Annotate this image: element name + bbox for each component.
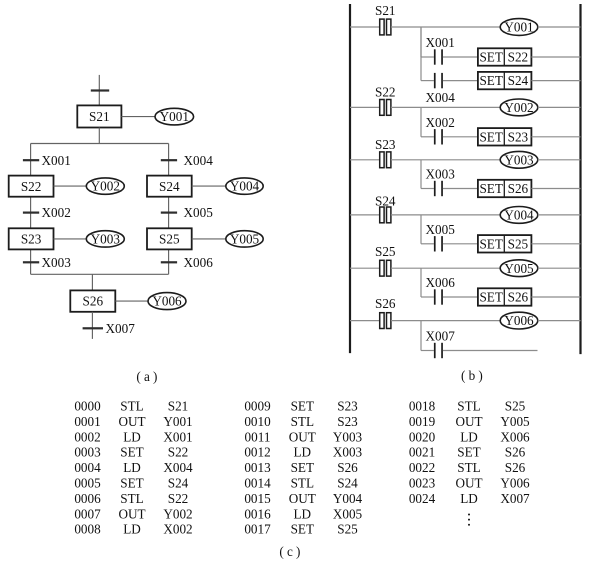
svg-text:SET: SET — [479, 181, 502, 196]
svg-text:SET: SET — [479, 129, 502, 144]
wire S25 to Y005 — [192, 238, 226, 240]
wire rail to STL S26 — [350, 320, 380, 322]
instruction row 0024 LD X007 — [409, 491, 530, 506]
svg-text:X003: X003 — [333, 445, 363, 460]
wire branch below S23 — [420, 160, 422, 189]
instruction row 0003 SET S22 — [74, 445, 188, 460]
svg-text:OUT: OUT — [455, 414, 482, 429]
wire branch to contact X001 — [421, 56, 434, 58]
svg-text:S22: S22 — [21, 179, 42, 194]
svg-text:0008: 0008 — [74, 522, 101, 537]
svg-text:LD: LD — [294, 445, 312, 460]
wire S21 to Y001 — [121, 116, 155, 118]
svg-text:0020: 0020 — [409, 429, 436, 444]
wire branch to contact X004 — [421, 80, 434, 82]
svg-text:Y001: Y001 — [504, 20, 533, 35]
wire branch to contact X003 — [421, 188, 434, 190]
svg-text:0012: 0012 — [244, 445, 270, 460]
svg-text:S24: S24 — [159, 179, 180, 194]
wire branch below S25 — [420, 268, 422, 297]
svg-text:S24: S24 — [337, 476, 358, 491]
wire SET S26 to right rail — [531, 296, 580, 298]
svg-text:OUT: OUT — [118, 414, 145, 429]
transition X001 tick — [23, 159, 39, 161]
svg-text:X007: X007 — [106, 321, 136, 336]
SET box S23 — [478, 128, 532, 145]
wire branch below S26 — [420, 321, 422, 351]
svg-text:OUT: OUT — [455, 476, 482, 491]
svg-text:S23: S23 — [337, 414, 358, 429]
svg-text:Y003: Y003 — [504, 152, 534, 167]
svg-text:0018: 0018 — [409, 399, 436, 414]
wire branch to contact X002 — [421, 136, 434, 138]
instruction row 0014 STL S24 — [244, 476, 358, 491]
svg-text:STL: STL — [291, 476, 314, 491]
wire branch to contact X005 — [421, 243, 434, 245]
STL contact S21 — [380, 19, 391, 35]
svg-text:Y006: Y006 — [504, 313, 534, 328]
state box S23 — [9, 228, 54, 249]
transition X003 tick — [23, 261, 39, 263]
instruction row 0023 OUT Y006 — [409, 476, 530, 491]
svg-text:STL: STL — [120, 491, 143, 506]
svg-text:STL: STL — [120, 399, 143, 414]
svg-text:LD: LD — [460, 429, 478, 444]
output coil Y004 — [500, 207, 538, 224]
svg-text:OUT: OUT — [118, 506, 145, 521]
contact X002 — [434, 129, 443, 144]
instruction row 0010 STL S23 — [244, 414, 358, 429]
svg-text:Y003: Y003 — [91, 232, 121, 247]
svg-text:X007: X007 — [500, 491, 530, 506]
svg-text:0017: 0017 — [244, 522, 271, 537]
wire branch below S24 — [420, 215, 422, 244]
svg-text:(a): (a) — [136, 369, 160, 384]
wire branch to contact X006 — [421, 296, 434, 298]
svg-text:S23: S23 — [375, 137, 396, 152]
svg-text:S23: S23 — [337, 399, 358, 414]
STL contact S25 — [380, 260, 391, 276]
svg-text:X002: X002 — [163, 522, 192, 537]
wire STL S23 to coil Y003 — [391, 159, 500, 161]
svg-text:SET: SET — [479, 73, 502, 88]
svg-text:SET: SET — [479, 236, 502, 251]
svg-text:0000: 0000 — [74, 399, 101, 414]
contact X006 — [434, 289, 443, 304]
wire left branch vertical — [30, 144, 32, 275]
svg-text:Y003: Y003 — [333, 429, 363, 444]
svg-text:X002: X002 — [426, 115, 455, 130]
svg-text:X001: X001 — [163, 429, 192, 444]
svg-text:S21: S21 — [375, 3, 396, 18]
svg-text:0022: 0022 — [409, 460, 435, 475]
svg-text:LD: LD — [123, 460, 141, 475]
left power rail — [349, 4, 351, 353]
output ellipse Y001 — [155, 108, 194, 125]
transition X002 tick — [23, 212, 39, 214]
output coil Y002 — [500, 99, 538, 116]
parallel branch line top — [31, 143, 169, 145]
wire S26 to Y006 — [115, 300, 148, 302]
wire branch below S22 — [420, 107, 422, 136]
transition X006 tick — [161, 261, 177, 263]
instruction row 0009 SET S23 — [244, 399, 358, 414]
wire branch below S21 — [420, 27, 422, 81]
svg-text:0013: 0013 — [244, 460, 271, 475]
svg-text:S25: S25 — [375, 244, 396, 259]
svg-text:Y005: Y005 — [500, 414, 530, 429]
wire rail to STL S25 — [350, 267, 380, 269]
instruction row 0001 OUT Y001 — [74, 414, 192, 429]
instruction row 0020 LD X006 — [409, 429, 530, 444]
svg-text:S25: S25 — [337, 522, 358, 537]
instruction row 0019 OUT Y005 — [409, 414, 530, 429]
svg-text:X001: X001 — [426, 35, 455, 50]
transition X004 tick — [161, 159, 177, 161]
output ellipse Y003 — [86, 231, 124, 247]
svg-text:0003: 0003 — [74, 445, 101, 460]
svg-text:S25: S25 — [508, 236, 529, 251]
contact X005 — [434, 236, 443, 251]
contact X007 — [434, 343, 443, 358]
svg-text:0015: 0015 — [244, 491, 271, 506]
state box S22 — [9, 176, 54, 197]
svg-text:S23: S23 — [508, 129, 529, 144]
output coil Y006 — [500, 312, 538, 329]
instruction row 0013 SET S26 — [244, 460, 358, 475]
wire rail to STL S24 — [350, 214, 380, 216]
svg-text:S22: S22 — [168, 445, 189, 460]
svg-text:X004: X004 — [426, 90, 456, 105]
wire SET S22 to right rail — [531, 56, 580, 58]
svg-text:S26: S26 — [505, 460, 526, 475]
svg-text:LD: LD — [460, 491, 478, 506]
svg-text:0002: 0002 — [74, 429, 100, 444]
wire contact X005 to SET S25 — [443, 243, 478, 245]
instruction row 0018 STL S25 — [409, 399, 526, 414]
svg-text:X003: X003 — [426, 167, 456, 182]
svg-text:0021: 0021 — [409, 445, 435, 460]
wire S22 to Y002 — [54, 185, 87, 187]
svg-text:0024: 0024 — [409, 491, 436, 506]
svg-text:LD: LD — [294, 506, 312, 521]
SET box S24 — [478, 72, 532, 89]
instruction row 0000 STL S21 — [74, 399, 188, 414]
svg-text:X005: X005 — [333, 506, 363, 521]
output coil Y005 — [500, 260, 538, 277]
wire contact X002 to SET S23 — [443, 136, 478, 138]
svg-text:Y001: Y001 — [160, 109, 189, 124]
svg-text:Y002: Y002 — [91, 179, 120, 194]
svg-text:S24: S24 — [375, 194, 396, 209]
svg-text:S24: S24 — [508, 73, 529, 88]
instruction row 0004 LD X004 — [74, 460, 193, 475]
instruction row 0006 STL S22 — [74, 491, 188, 506]
wire right branch vertical — [168, 144, 170, 275]
svg-text:S26: S26 — [337, 460, 358, 475]
wire SET S26 to right rail — [531, 188, 580, 190]
wire merge to S26 — [91, 274, 93, 290]
state box S26 — [70, 290, 115, 311]
transition X007 tick — [83, 327, 103, 329]
svg-text:SET: SET — [291, 460, 314, 475]
svg-text:S21: S21 — [168, 399, 189, 414]
svg-text:SET: SET — [120, 476, 143, 491]
svg-text:0016: 0016 — [244, 506, 271, 521]
svg-text:X004: X004 — [184, 153, 214, 168]
svg-text:(c): (c) — [279, 544, 303, 559]
state box S25 — [147, 228, 192, 249]
instruction row 0021 SET S26 — [409, 445, 526, 460]
svg-text:S24: S24 — [168, 476, 189, 491]
wire STL S24 to coil Y004 — [391, 214, 500, 216]
output ellipse Y004 — [226, 178, 263, 194]
STL contact S24 — [380, 207, 391, 223]
svg-text:SET: SET — [479, 290, 502, 305]
wire coil Y005 to right rail — [538, 267, 581, 269]
output coil Y001 — [500, 19, 538, 36]
wire SET S23 to right rail — [531, 136, 580, 138]
output ellipse Y006 — [148, 293, 186, 310]
instruction row 0017 SET S25 — [244, 522, 358, 537]
instruction row 0008 LD X002 — [74, 522, 192, 537]
wire coil Y003 to right rail — [538, 159, 581, 161]
instruction row 0011 OUT Y003 — [245, 429, 363, 444]
wire S23 to Y003 — [54, 238, 87, 240]
svg-text:S26: S26 — [508, 181, 529, 196]
STL contact S26 — [380, 313, 391, 329]
svg-text:0010: 0010 — [244, 414, 271, 429]
contact X004 — [434, 73, 443, 88]
svg-text:Y004: Y004 — [333, 491, 363, 506]
state box S21 — [77, 105, 121, 127]
svg-text:S26: S26 — [508, 290, 529, 305]
wire STL S26 to coil Y006 — [391, 320, 500, 322]
svg-text:0005: 0005 — [74, 476, 101, 491]
svg-text:X005: X005 — [184, 205, 214, 220]
svg-text:STL: STL — [457, 460, 480, 475]
svg-text:0004: 0004 — [74, 460, 101, 475]
svg-text:S25: S25 — [505, 399, 526, 414]
contact X001 — [434, 49, 443, 64]
svg-text:S26: S26 — [83, 294, 104, 309]
SET box S25 — [478, 235, 532, 252]
wire branch to contact X007 — [421, 350, 434, 352]
continuation ellipsis — [468, 514, 470, 526]
svg-text:OUT: OUT — [289, 429, 316, 444]
wire S24 to Y004 — [192, 185, 226, 187]
state box S24 — [147, 176, 192, 197]
wire STL S25 to coil Y005 — [391, 267, 500, 269]
svg-text:X007: X007 — [426, 329, 456, 344]
svg-text:S22: S22 — [508, 50, 529, 65]
svg-text:0011: 0011 — [245, 429, 271, 444]
wire SET S25 to right rail — [531, 243, 580, 245]
svg-text:X001: X001 — [42, 153, 71, 168]
wire coil Y006 to right rail — [538, 320, 581, 322]
svg-text:0019: 0019 — [409, 414, 436, 429]
svg-text:Y002: Y002 — [163, 506, 192, 521]
svg-text:LD: LD — [123, 429, 141, 444]
output coil Y003 — [500, 151, 538, 168]
svg-text:X006: X006 — [184, 255, 214, 270]
svg-text:X002: X002 — [42, 205, 71, 220]
svg-text:Y005: Y005 — [504, 261, 534, 276]
instruction row 0012 LD X003 — [244, 445, 362, 460]
svg-text:Y006: Y006 — [152, 294, 182, 309]
wire STL S22 to coil Y002 — [391, 106, 500, 108]
svg-text:OUT: OUT — [289, 491, 316, 506]
output ellipse Y002 — [86, 178, 124, 194]
svg-text:SET: SET — [120, 445, 143, 460]
svg-text:Y002: Y002 — [504, 100, 533, 115]
svg-text:LD: LD — [123, 522, 141, 537]
instruction row 0002 LD X001 — [74, 429, 192, 444]
instruction row 0015 OUT Y004 — [244, 491, 362, 506]
wire STL S21 to coil Y001 — [391, 26, 500, 28]
svg-text:S23: S23 — [21, 232, 42, 247]
svg-text:0006: 0006 — [74, 491, 101, 506]
svg-text:SET: SET — [457, 445, 480, 460]
wire rail to STL S22 — [350, 106, 380, 108]
instruction row 0005 SET S24 — [74, 476, 188, 491]
svg-text:STL: STL — [457, 399, 480, 414]
wire contact X003 to SET S26 — [443, 188, 478, 190]
svg-text:S25: S25 — [159, 232, 180, 247]
svg-text:S26: S26 — [505, 445, 526, 460]
wire branch below S21 — [420, 27, 422, 57]
instruction row 0007 OUT Y002 — [74, 506, 192, 521]
initial transition tick — [91, 89, 109, 91]
svg-text:Y004: Y004 — [504, 208, 534, 223]
wire SET S24 to right rail — [531, 80, 580, 82]
wire contact X007 continuation — [443, 350, 538, 352]
SET box S26 — [478, 288, 532, 305]
svg-text:S21: S21 — [89, 109, 110, 124]
STL contact S23 — [380, 152, 391, 168]
wire contact X006 to SET S26 — [443, 296, 478, 298]
svg-text:0009: 0009 — [244, 399, 271, 414]
svg-text:X004: X004 — [163, 460, 193, 475]
svg-text:S22: S22 — [168, 491, 189, 506]
right power rail — [579, 4, 581, 354]
wire S26 exit — [91, 312, 93, 339]
svg-text:0001: 0001 — [74, 414, 100, 429]
svg-text:SET: SET — [291, 522, 314, 537]
wire contact X004 to SET S24 — [443, 80, 478, 82]
wire entry into S21 — [98, 75, 100, 106]
svg-text:Y004: Y004 — [230, 179, 260, 194]
instruction row 0016 LD X005 — [244, 506, 362, 521]
SET box S26 — [478, 180, 532, 197]
SET box S22 — [478, 48, 532, 65]
output ellipse Y005 — [226, 231, 263, 247]
wire coil Y001 to right rail — [538, 26, 581, 28]
wire S21 to branch — [98, 128, 100, 144]
svg-text:(b): (b) — [461, 368, 486, 383]
svg-text:S22: S22 — [375, 85, 396, 100]
svg-text:STL: STL — [291, 414, 314, 429]
transition X005 tick — [161, 212, 177, 214]
svg-text:0014: 0014 — [244, 476, 271, 491]
wire rail to STL S21 — [350, 26, 380, 28]
svg-text:Y005: Y005 — [230, 232, 260, 247]
svg-text:X006: X006 — [500, 429, 530, 444]
parallel merge line bottom — [31, 273, 169, 275]
svg-text:SET: SET — [479, 50, 502, 65]
svg-text:Y001: Y001 — [163, 414, 192, 429]
wire contact X001 to SET S22 — [443, 56, 478, 58]
svg-text:SET: SET — [291, 399, 314, 414]
svg-text:0023: 0023 — [409, 476, 436, 491]
svg-text:S26: S26 — [375, 296, 396, 311]
svg-text:0007: 0007 — [74, 506, 101, 521]
svg-text:X003: X003 — [42, 255, 72, 270]
wire rail to STL S23 — [350, 159, 380, 161]
svg-text:Y006: Y006 — [500, 476, 530, 491]
wire coil Y004 to right rail — [538, 214, 581, 216]
wire coil Y002 to right rail — [538, 106, 581, 108]
svg-text:X005: X005 — [426, 222, 456, 237]
svg-text:X006: X006 — [426, 275, 456, 290]
contact X003 — [434, 181, 443, 196]
instruction row 0022 STL S26 — [409, 460, 526, 475]
STL contact S22 — [380, 100, 391, 116]
